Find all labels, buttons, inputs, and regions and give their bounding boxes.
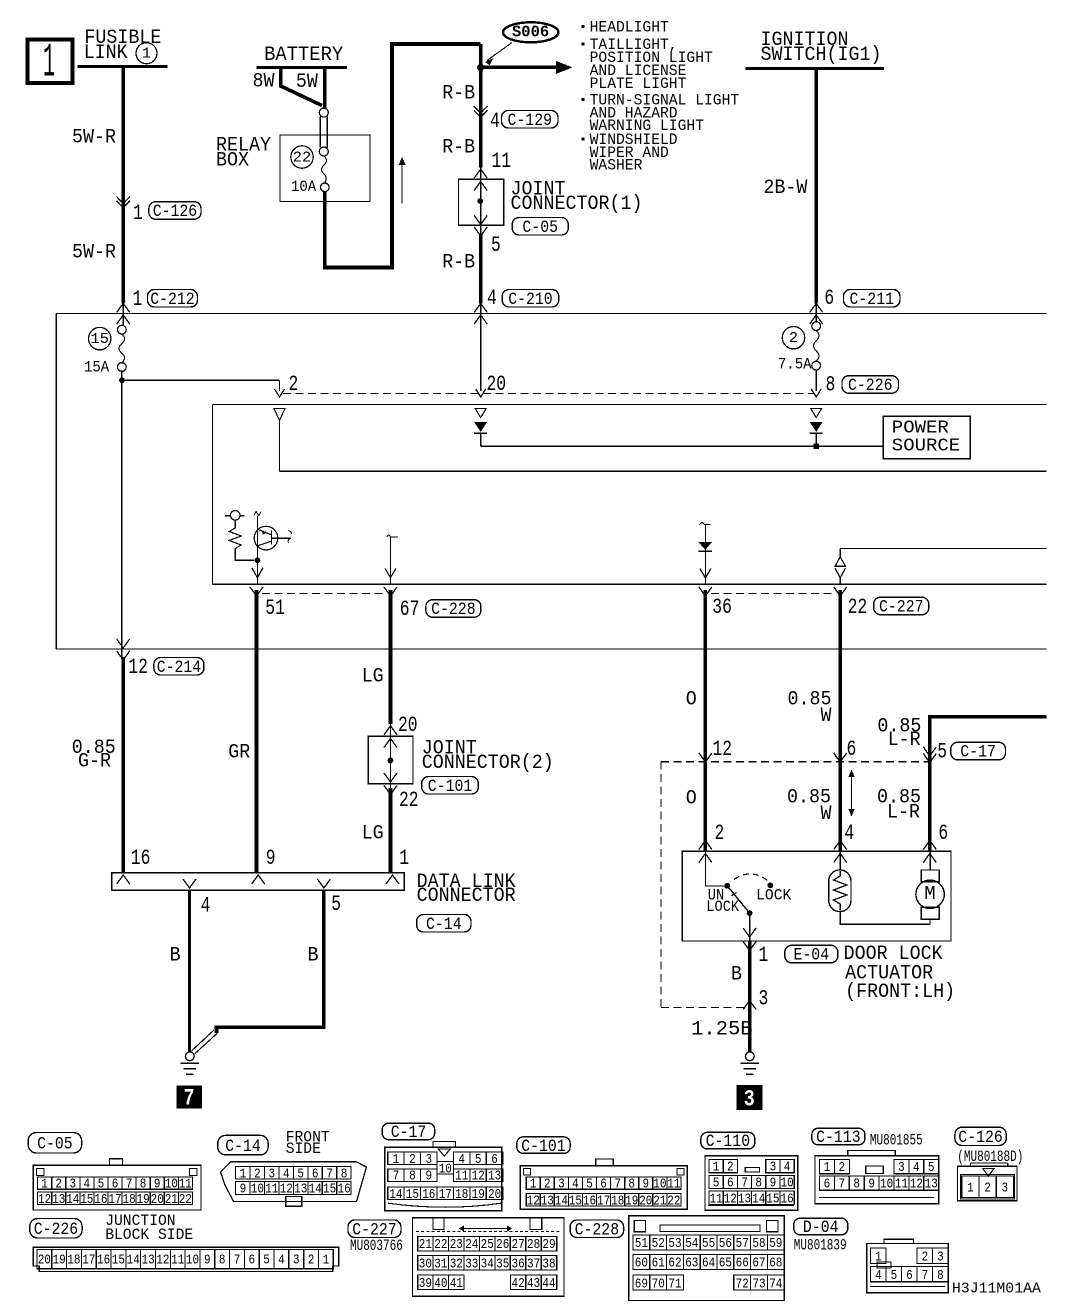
svg-text:51: 51 bbox=[265, 596, 285, 621]
sensor circle with line bbox=[225, 515, 244, 517]
svg-text:12: 12 bbox=[280, 1182, 293, 1198]
svg-text:17: 17 bbox=[82, 1254, 95, 1269]
connector C-126 inline chevrons bbox=[117, 197, 130, 204]
svg-text:4: 4 bbox=[913, 1160, 920, 1176]
svg-text:6: 6 bbox=[938, 821, 948, 846]
svg-text:20: 20 bbox=[398, 713, 418, 738]
svg-text:2: 2 bbox=[727, 1160, 734, 1176]
connector C-113 label bbox=[812, 1128, 865, 1145]
svg-text:13: 13 bbox=[294, 1182, 307, 1198]
svg-text:C-210: C-210 bbox=[508, 290, 553, 310]
svg-text:23: 23 bbox=[450, 1237, 463, 1253]
svg-text:4: 4 bbox=[572, 1177, 579, 1193]
svg-text:15: 15 bbox=[80, 1192, 93, 1208]
svg-text:18: 18 bbox=[123, 1192, 136, 1208]
svg-text:2: 2 bbox=[922, 1249, 929, 1265]
svg-text:11: 11 bbox=[179, 1177, 192, 1193]
svg-text:(FRONT:LH): (FRONT:LH) bbox=[845, 981, 955, 1004]
svg-text:53: 53 bbox=[668, 1236, 681, 1252]
svg-text:M: M bbox=[924, 883, 935, 905]
actuator output pin 1 bbox=[743, 942, 756, 951]
svg-text:69: 69 bbox=[635, 1276, 648, 1292]
crimp joint to ground bbox=[192, 1030, 218, 1054]
svg-text:12: 12 bbox=[527, 1194, 540, 1210]
svg-text:C-228: C-228 bbox=[431, 600, 476, 620]
svg-text:7: 7 bbox=[393, 1169, 400, 1185]
circled 22 fuse number bbox=[291, 146, 313, 168]
svg-text:52: 52 bbox=[652, 1236, 665, 1252]
svg-text:22: 22 bbox=[434, 1237, 447, 1253]
svg-text:18: 18 bbox=[455, 1187, 468, 1203]
svg-text:14: 14 bbox=[66, 1192, 79, 1208]
svg-text:4: 4 bbox=[875, 1268, 882, 1284]
door lock actuator box bbox=[682, 851, 951, 941]
connector C-17 label bbox=[382, 1123, 434, 1140]
svg-text:C-110: C-110 bbox=[706, 1132, 751, 1152]
svg-text:6: 6 bbox=[824, 1177, 831, 1193]
svg-text:B: B bbox=[731, 964, 742, 987]
svg-text:7: 7 bbox=[839, 1177, 846, 1193]
svg-text:8: 8 bbox=[219, 1254, 226, 1269]
svg-text:C-227: C-227 bbox=[879, 598, 924, 618]
svg-text:1: 1 bbox=[824, 1160, 831, 1176]
svg-text:2B-W: 2B-W bbox=[763, 177, 807, 200]
svg-text:63: 63 bbox=[685, 1256, 698, 1272]
svg-text:21: 21 bbox=[419, 1237, 432, 1253]
svg-text:C-14: C-14 bbox=[426, 915, 462, 935]
splice label S006 bbox=[503, 22, 558, 42]
svg-text:11: 11 bbox=[492, 149, 512, 174]
svg-text:5: 5 bbox=[713, 1176, 720, 1192]
connector D-04 label bbox=[794, 1218, 848, 1235]
svg-text:17: 17 bbox=[439, 1187, 452, 1203]
svg-text:SWITCH(IG1): SWITCH(IG1) bbox=[761, 44, 882, 67]
svg-text:56: 56 bbox=[719, 1236, 732, 1252]
svg-text:MU803766: MU803766 bbox=[350, 1237, 403, 1255]
wire from fuse 15 down bbox=[121, 371, 123, 649]
svg-text:5W-R: 5W-R bbox=[72, 127, 116, 150]
svg-text:9: 9 bbox=[426, 1169, 433, 1185]
svg-text:15: 15 bbox=[91, 332, 109, 348]
svg-text:C-129: C-129 bbox=[508, 111, 553, 131]
svg-text:10: 10 bbox=[251, 1182, 264, 1198]
connector label C-226 bbox=[842, 376, 899, 394]
svg-text:20: 20 bbox=[151, 1192, 164, 1208]
svg-text:16: 16 bbox=[97, 1254, 110, 1269]
svg-text:16: 16 bbox=[94, 1192, 107, 1208]
chevrons into actuator pin 6 bbox=[923, 841, 936, 850]
svg-text:PLATE LIGHT: PLATE LIGHT bbox=[590, 75, 687, 93]
svg-text:37: 37 bbox=[527, 1256, 540, 1272]
svg-text:9: 9 bbox=[770, 1176, 777, 1192]
svg-text:43: 43 bbox=[527, 1276, 540, 1292]
fuse 2 element bbox=[815, 303, 817, 321]
wire R-B lower bbox=[479, 235, 483, 304]
chevron pin 36 bbox=[699, 587, 712, 596]
svg-text:MU801855: MU801855 bbox=[870, 1132, 923, 1150]
svg-text:3: 3 bbox=[770, 1160, 777, 1176]
connector label C-211 bbox=[844, 290, 901, 308]
svg-text:6: 6 bbox=[491, 1152, 498, 1168]
connector D-04 pinout bbox=[867, 1244, 949, 1293]
chevrons into actuator pin 2 bbox=[699, 841, 712, 850]
svg-text:44: 44 bbox=[542, 1276, 555, 1292]
svg-text:2: 2 bbox=[55, 1177, 62, 1193]
svg-text:R-B: R-B bbox=[442, 83, 475, 106]
svg-text:11: 11 bbox=[895, 1177, 908, 1193]
chevrons into actuator pin 4 bbox=[834, 841, 847, 850]
svg-text:10: 10 bbox=[165, 1177, 178, 1193]
connector C-101 label bbox=[517, 1137, 570, 1154]
svg-text:40: 40 bbox=[434, 1276, 447, 1292]
svg-text:LG: LG bbox=[362, 666, 384, 689]
ETACS output with arrow to pin 67 bbox=[387, 535, 399, 537]
dashed connector line C-226 bbox=[283, 393, 814, 395]
ground number box 7 bbox=[177, 1086, 202, 1108]
ground symbol 7 bbox=[185, 1052, 194, 1061]
svg-text:28: 28 bbox=[527, 1237, 540, 1253]
svg-text:4: 4 bbox=[201, 894, 211, 919]
zener symbol above pin 22 bbox=[839, 549, 841, 558]
svg-text:16: 16 bbox=[131, 846, 151, 871]
svg-text:10: 10 bbox=[653, 1177, 666, 1193]
svg-text:19: 19 bbox=[53, 1254, 66, 1269]
junction dot power source feed bbox=[813, 443, 819, 449]
svg-text:C-113: C-113 bbox=[816, 1128, 861, 1148]
svg-text:8: 8 bbox=[628, 1177, 635, 1193]
connector C-227 pinout bbox=[413, 1218, 565, 1296]
connector C-14 label bbox=[218, 1135, 268, 1155]
svg-text:1: 1 bbox=[713, 1160, 720, 1176]
svg-text:25: 25 bbox=[481, 1237, 494, 1253]
pin 12 chevron at door connector bbox=[699, 753, 712, 762]
connector C-110 pinout bbox=[705, 1156, 798, 1211]
diode to ETACS pin 36 bbox=[700, 523, 711, 525]
svg-text:5W-R: 5W-R bbox=[72, 242, 116, 265]
svg-text:35: 35 bbox=[496, 1256, 509, 1272]
svg-text:8: 8 bbox=[409, 1169, 416, 1185]
svg-text:7: 7 bbox=[614, 1177, 621, 1193]
svg-text:8: 8 bbox=[755, 1176, 762, 1192]
wire 20 down arrow bbox=[480, 303, 482, 391]
motor to resistor link wire bbox=[840, 912, 930, 925]
svg-text:L-R: L-R bbox=[887, 802, 920, 825]
ETACS pin 2 input triangle bbox=[274, 409, 285, 421]
svg-text:C-226: C-226 bbox=[34, 1220, 78, 1240]
svg-text:4: 4 bbox=[283, 1166, 290, 1182]
svg-text:21: 21 bbox=[165, 1192, 178, 1208]
svg-text:D-04: D-04 bbox=[803, 1218, 839, 1238]
svg-text:1: 1 bbox=[967, 1180, 974, 1196]
wire 8W from battery bbox=[281, 68, 322, 106]
svg-text:33: 33 bbox=[465, 1256, 478, 1272]
fuse 15 element bbox=[122, 303, 124, 325]
wire 0.85 W pin 22 down bbox=[838, 590, 842, 851]
svg-text:2: 2 bbox=[839, 1160, 846, 1176]
svg-text:R-B: R-B bbox=[442, 137, 475, 160]
joint connector 2 box bbox=[368, 736, 413, 784]
door lock motor bbox=[929, 852, 931, 870]
svg-text:64: 64 bbox=[702, 1256, 715, 1272]
svg-text:24: 24 bbox=[465, 1237, 478, 1253]
svg-text:12: 12 bbox=[128, 655, 148, 680]
svg-text:70: 70 bbox=[652, 1276, 665, 1292]
svg-text:39: 39 bbox=[419, 1276, 432, 1292]
svg-text:15: 15 bbox=[569, 1194, 582, 1210]
svg-text:LOCK: LOCK bbox=[756, 887, 792, 905]
svg-text:C-212: C-212 bbox=[150, 290, 195, 310]
svg-text:12: 12 bbox=[156, 1254, 169, 1269]
connector C-126 pinout bbox=[958, 1166, 1018, 1200]
svg-text:73: 73 bbox=[752, 1276, 765, 1292]
wire LG pin 67 bbox=[389, 590, 393, 724]
svg-text:12: 12 bbox=[910, 1177, 923, 1193]
svg-text:55: 55 bbox=[702, 1236, 715, 1252]
svg-text:36: 36 bbox=[512, 1256, 525, 1272]
svg-text:15: 15 bbox=[406, 1187, 419, 1203]
svg-text:1: 1 bbox=[399, 846, 409, 871]
svg-text:O: O bbox=[686, 689, 697, 712]
circled 2 fuse number bbox=[782, 327, 804, 349]
svg-text:1: 1 bbox=[133, 201, 143, 226]
svg-text:2: 2 bbox=[544, 1177, 551, 1193]
chevron pin 67 bbox=[384, 587, 397, 596]
svg-text:8: 8 bbox=[341, 1166, 348, 1182]
svg-text:9: 9 bbox=[643, 1177, 650, 1193]
svg-text:CONNECTOR(1): CONNECTOR(1) bbox=[511, 193, 643, 216]
svg-text:1: 1 bbox=[393, 1152, 400, 1168]
svg-text:C-126: C-126 bbox=[958, 1128, 1003, 1148]
svg-text:9: 9 bbox=[154, 1177, 161, 1193]
svg-text:65: 65 bbox=[719, 1256, 732, 1272]
connector C-101 pinout bbox=[520, 1166, 687, 1210]
fusible link element in relay box bbox=[319, 108, 328, 117]
connector label C-126 bbox=[149, 202, 201, 220]
svg-text:61: 61 bbox=[652, 1256, 665, 1272]
svg-text:14: 14 bbox=[389, 1187, 402, 1203]
svg-text:18: 18 bbox=[611, 1194, 624, 1210]
svg-text:5: 5 bbox=[475, 1152, 482, 1168]
line to other circuit from pin 22 bbox=[840, 548, 1046, 550]
wire 5W-R from fusible link bbox=[121, 67, 125, 304]
switch throw dashed arc bbox=[734, 874, 770, 883]
pointer line from S006 to junction bbox=[487, 43, 512, 61]
dashed connector line C-227 bbox=[711, 593, 835, 595]
svg-text:7: 7 bbox=[741, 1176, 748, 1192]
junction block outline bbox=[56, 313, 1046, 315]
svg-text:BATTERY: BATTERY bbox=[264, 44, 343, 67]
svg-text:BLOCK SIDE: BLOCK SIDE bbox=[105, 1226, 193, 1244]
svg-text:B: B bbox=[308, 945, 319, 968]
svg-text:2: 2 bbox=[789, 331, 798, 347]
lock switch wiring bbox=[705, 852, 727, 886]
connector label C-212 bbox=[148, 290, 198, 308]
svg-text:6: 6 bbox=[312, 1166, 319, 1182]
svg-text:1: 1 bbox=[530, 1177, 537, 1193]
svg-text:38: 38 bbox=[542, 1256, 555, 1272]
switch pivot dot bbox=[724, 883, 730, 889]
page number box 1 bbox=[28, 40, 73, 84]
svg-text:67: 67 bbox=[752, 1256, 765, 1272]
svg-text:41: 41 bbox=[450, 1276, 463, 1292]
circled 1 fusible link number bbox=[136, 43, 157, 64]
svg-text:HEADLIGHT: HEADLIGHT bbox=[590, 19, 669, 37]
connector C-226 pinout bbox=[33, 1247, 338, 1271]
power source feed line bbox=[481, 445, 884, 447]
svg-text:72: 72 bbox=[736, 1276, 749, 1292]
wire R-B vertical trunk bbox=[479, 44, 483, 167]
svg-text:22: 22 bbox=[293, 150, 311, 166]
connector C-126 pinout label bbox=[955, 1127, 1006, 1145]
ignition switch bus bar bbox=[746, 67, 884, 70]
svg-text:10A: 10A bbox=[291, 178, 317, 196]
svg-text:3: 3 bbox=[293, 1254, 300, 1269]
svg-text:SOURCE: SOURCE bbox=[892, 437, 960, 457]
connector C-129 chevrons bbox=[474, 106, 488, 113]
connector label C-17 bbox=[951, 742, 1006, 760]
svg-text:POWER: POWER bbox=[892, 419, 949, 439]
svg-text:WASHER: WASHER bbox=[590, 157, 643, 175]
svg-text:6: 6 bbox=[824, 286, 834, 311]
svg-text:14: 14 bbox=[555, 1194, 568, 1210]
svg-text:LG: LG bbox=[362, 823, 384, 846]
ETACS pin 8 input triangle and diode bbox=[811, 409, 822, 418]
svg-text:3: 3 bbox=[744, 1087, 755, 1113]
switch output wire bbox=[749, 913, 751, 941]
chevron on transistor output bbox=[256, 560, 258, 584]
connector label C-210 bbox=[502, 290, 559, 308]
door lock resistor capsule bbox=[839, 852, 841, 870]
current direction arrow bbox=[401, 162, 403, 204]
svg-text:R-B: R-B bbox=[442, 252, 475, 275]
svg-text:3: 3 bbox=[269, 1166, 276, 1182]
svg-text:22: 22 bbox=[667, 1194, 680, 1210]
svg-text:13: 13 bbox=[541, 1194, 554, 1210]
svg-text:9: 9 bbox=[204, 1254, 211, 1269]
svg-text:9: 9 bbox=[868, 1177, 875, 1193]
svg-text:27: 27 bbox=[512, 1237, 525, 1253]
svg-text:BOX: BOX bbox=[216, 150, 249, 173]
svg-text:C-05: C-05 bbox=[522, 218, 558, 238]
ETACS pin 20 input triangle and diode bbox=[475, 409, 486, 418]
connector C-212 chevrons at junction block bbox=[117, 303, 130, 312]
svg-text:15: 15 bbox=[323, 1182, 336, 1198]
svg-text:7: 7 bbox=[184, 1086, 195, 1112]
svg-text:3: 3 bbox=[426, 1152, 433, 1168]
svg-text:G-R: G-R bbox=[78, 751, 111, 774]
connector C-228 pinout bbox=[629, 1216, 784, 1301]
svg-text:66: 66 bbox=[736, 1256, 749, 1272]
svg-text:16: 16 bbox=[583, 1194, 596, 1210]
connector C-226 label bbox=[30, 1219, 82, 1239]
junction dot S006 bbox=[477, 64, 484, 71]
bullet list of circuits fed by S006 bbox=[582, 25, 585, 28]
svg-text:68: 68 bbox=[769, 1256, 782, 1272]
connector C-05 pinout bbox=[33, 1165, 201, 1210]
battery bus bar bbox=[257, 66, 347, 69]
svg-text:3: 3 bbox=[1002, 1180, 1009, 1196]
svg-text:3: 3 bbox=[70, 1177, 77, 1193]
svg-text:S006: S006 bbox=[512, 23, 549, 42]
ground wire B right bbox=[217, 890, 324, 1033]
svg-text:20: 20 bbox=[488, 1187, 501, 1203]
chevron into joint connector 1 bbox=[474, 169, 487, 178]
ground wire B left bbox=[188, 890, 191, 1052]
accessory feed line inside ETACS bbox=[280, 470, 1047, 472]
svg-text:C-226: C-226 bbox=[848, 376, 893, 396]
resistor inside ETACS bbox=[229, 520, 241, 552]
svg-text:2: 2 bbox=[308, 1254, 315, 1269]
svg-text:16: 16 bbox=[422, 1187, 435, 1203]
data link connector box bbox=[112, 873, 404, 890]
svg-text:18: 18 bbox=[67, 1254, 80, 1269]
svg-text:13: 13 bbox=[52, 1192, 65, 1208]
svg-text:11: 11 bbox=[265, 1182, 278, 1198]
svg-text:59: 59 bbox=[769, 1236, 782, 1252]
connector label C-05 bbox=[512, 218, 568, 236]
svg-text:26: 26 bbox=[496, 1237, 509, 1253]
svg-text:1: 1 bbox=[875, 1249, 882, 1265]
svg-text:14: 14 bbox=[127, 1254, 140, 1269]
svg-text:57: 57 bbox=[736, 1236, 749, 1252]
pin 6 chevron at door connector bbox=[834, 753, 847, 762]
svg-text:6: 6 bbox=[847, 737, 857, 762]
svg-text:4: 4 bbox=[458, 1152, 465, 1168]
svg-text:71: 71 bbox=[668, 1276, 681, 1292]
svg-text:21: 21 bbox=[653, 1194, 666, 1210]
svg-text:51: 51 bbox=[635, 1236, 648, 1252]
svg-text:31: 31 bbox=[434, 1256, 447, 1272]
svg-text:7: 7 bbox=[326, 1166, 333, 1182]
svg-text:5W: 5W bbox=[296, 71, 318, 94]
svg-text:8: 8 bbox=[853, 1177, 860, 1193]
svg-text:20: 20 bbox=[639, 1194, 652, 1210]
connector C-228 label bbox=[570, 1220, 624, 1238]
wire 0.85 G-R bbox=[121, 649, 123, 659]
svg-text:16: 16 bbox=[338, 1182, 351, 1198]
junction dot fuse 15 output bbox=[119, 377, 125, 383]
svg-text:5: 5 bbox=[98, 1177, 105, 1193]
svg-text:1: 1 bbox=[323, 1254, 330, 1269]
svg-text:2: 2 bbox=[715, 821, 725, 846]
branch wire to ETACS pin 2 bbox=[122, 379, 280, 381]
svg-text:O: O bbox=[686, 788, 697, 811]
transistor base line to other circuit bbox=[272, 537, 292, 539]
svg-text:5: 5 bbox=[297, 1166, 304, 1182]
svg-text:GR: GR bbox=[228, 742, 250, 765]
svg-text:C-14: C-14 bbox=[225, 1137, 261, 1157]
wire 2B-W bbox=[814, 69, 818, 304]
svg-text:13: 13 bbox=[925, 1177, 938, 1193]
svg-text:LINK: LINK bbox=[84, 42, 128, 65]
svg-text:20: 20 bbox=[487, 372, 507, 397]
svg-text:22: 22 bbox=[179, 1192, 192, 1208]
connector label C-214 bbox=[154, 658, 204, 676]
chevron pin 22 bbox=[834, 587, 847, 596]
svg-text:6: 6 bbox=[600, 1177, 607, 1193]
svg-text:C-101: C-101 bbox=[521, 1137, 566, 1157]
connector C-211 chevrons at junction block bbox=[810, 303, 823, 312]
wire GR pin 51 bbox=[255, 590, 259, 873]
svg-text:4: 4 bbox=[784, 1160, 791, 1176]
svg-text:36: 36 bbox=[712, 595, 732, 620]
svg-text:14: 14 bbox=[309, 1182, 322, 1198]
joint connector 1 box bbox=[459, 179, 504, 225]
svg-text:8: 8 bbox=[826, 372, 836, 397]
junction dot transistor output bbox=[255, 557, 261, 563]
svg-text:9: 9 bbox=[266, 846, 276, 871]
svg-text:15: 15 bbox=[112, 1254, 125, 1269]
